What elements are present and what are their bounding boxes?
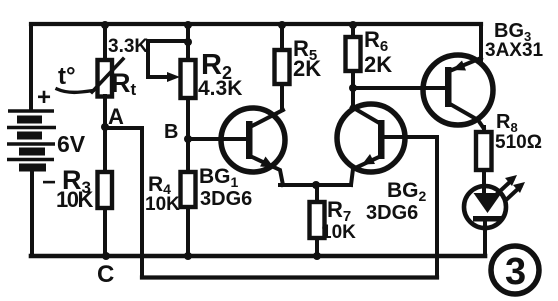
node C: [102, 252, 110, 260]
resistor R7 body: [310, 202, 325, 238]
svg-text:510Ω: 510Ω: [495, 132, 542, 153]
svg-text:t°: t°: [58, 63, 76, 90]
wire Rt to node A: [103, 96, 107, 172]
transistor BG1 emitter: [250, 156, 283, 185]
wire node A right: [105, 126, 142, 130]
wire BG3 base: [353, 86, 445, 90]
LED light arrow 1: [498, 180, 512, 193]
transistor BG3 emitter diagonal: [452, 58, 481, 70]
transistor BG1 circle: [221, 108, 285, 172]
wire R2 to node B: [186, 98, 190, 172]
transistor BG3 emitter arrowhead (PNP): [452, 61, 466, 71]
wire node B to BG1 base: [188, 137, 246, 141]
rheostat R2 line from rail: [186, 24, 190, 60]
LED triangle: [474, 193, 502, 213]
wire R3 to C: [103, 208, 107, 256]
resistor R5 line from rail: [280, 24, 284, 50]
rheostat R2 wiper loop: [148, 41, 188, 77]
transistor BG3 circle: [423, 55, 493, 125]
wire battery - to bottom rail: [30, 170, 34, 256]
transistor BG2 base bar: [378, 120, 385, 159]
thermistor Rt line from rail: [103, 24, 107, 60]
rheostat R2 body: [181, 60, 196, 98]
node common emitter: [312, 181, 320, 189]
battery GB 6V: [7, 111, 56, 168]
thermistor Rt slash: [92, 59, 123, 92]
svg-text:BG2: BG2: [387, 179, 427, 204]
svg-text:BG1: BG1: [199, 165, 239, 190]
svg-text:3DG6: 3DG6: [200, 188, 252, 210]
svg-text:+: +: [37, 84, 51, 111]
wire left vertical to battery +: [29, 24, 33, 109]
node R6-BG3 base: [349, 84, 357, 92]
node R7-rail: [313, 252, 321, 260]
transistor BG3 collector: [450, 104, 484, 128]
transistor BG1 collector: [250, 110, 283, 127]
transistor BG2 emitter arrowhead: [362, 154, 375, 165]
resistor R6 body: [346, 37, 361, 71]
resistor R4 body: [181, 172, 196, 207]
wire LED to bottom rail: [483, 221, 487, 256]
rheostat R2 wiper arrowhead: [167, 72, 180, 82]
node top-Rt: [101, 21, 109, 29]
thermistor t-curve: [57, 89, 93, 92]
wire feedback bottom: [142, 275, 437, 279]
transistor BG2 collector: [352, 107, 381, 124]
wire R7 to bottom rail: [315, 238, 319, 256]
node B: [184, 135, 192, 143]
wire R4 to bottom rail: [186, 207, 190, 256]
node top-R5: [278, 21, 286, 29]
wire R5 to BG1 collector: [280, 84, 284, 110]
svg-text:R7: R7: [327, 197, 351, 225]
svg-text:3AX31: 3AX31: [485, 40, 544, 61]
resistor R5 body: [275, 50, 290, 84]
node A: [101, 123, 109, 131]
svg-text:Rt: Rt: [111, 68, 137, 99]
svg-text:A: A: [108, 104, 124, 129]
svg-text:C: C: [97, 261, 114, 288]
wire feedback to BG2 base: [384, 135, 437, 139]
LED light arrow 2: [506, 187, 520, 200]
wire feedback down: [140, 128, 144, 278]
resistor R6 line from rail: [351, 24, 355, 37]
wire R6 to BG2 collector: [351, 71, 355, 108]
LED D circle: [464, 186, 506, 228]
thermistor Rt body: [98, 60, 113, 97]
wire emitters to R7: [315, 185, 319, 202]
node top-R6: [349, 21, 357, 29]
node top-R2: [184, 21, 192, 29]
svg-text:R6: R6: [364, 27, 388, 55]
transistor BG3 base bar: [445, 67, 452, 107]
node R4-rail: [184, 252, 192, 260]
wire top rail: [31, 22, 481, 26]
svg-text:10K: 10K: [321, 222, 356, 243]
svg-text:10K: 10K: [145, 194, 180, 215]
transistor BG1 emitter arrowhead: [260, 157, 274, 168]
transistor BG2 emitter: [351, 156, 381, 185]
transistor BG1 base bar: [246, 121, 253, 159]
wire feedback up: [435, 137, 439, 278]
svg-text:3.3K: 3.3K: [108, 36, 148, 57]
svg-text:6V: 6V: [57, 131, 86, 157]
wire R8 to LED: [482, 170, 486, 193]
svg-text:10K: 10K: [56, 187, 93, 212]
wire bottom rail: [31, 254, 485, 259]
svg-text:3: 3: [505, 251, 526, 293]
node R2 wiper tap: [184, 38, 192, 46]
resistor R3 body: [98, 172, 113, 208]
transistor BG2 circle: [337, 104, 405, 172]
svg-text:4.3K: 4.3K: [198, 77, 242, 100]
LED cathode bar: [473, 216, 502, 222]
transistor BG3 emitter wire from rail: [479, 24, 483, 62]
svg-text:3DG6: 3DG6: [366, 202, 418, 224]
resistor R8 body: [476, 132, 492, 170]
svg-text:2K: 2K: [364, 52, 392, 77]
svg-text:2K: 2K: [293, 56, 321, 81]
svg-text:B: B: [164, 121, 178, 143]
figure number 3 circle: [491, 246, 539, 294]
wire common emitters: [280, 183, 351, 187]
svg-text:−: −: [42, 169, 56, 196]
wire BG3 collector to R8: [482, 127, 486, 132]
